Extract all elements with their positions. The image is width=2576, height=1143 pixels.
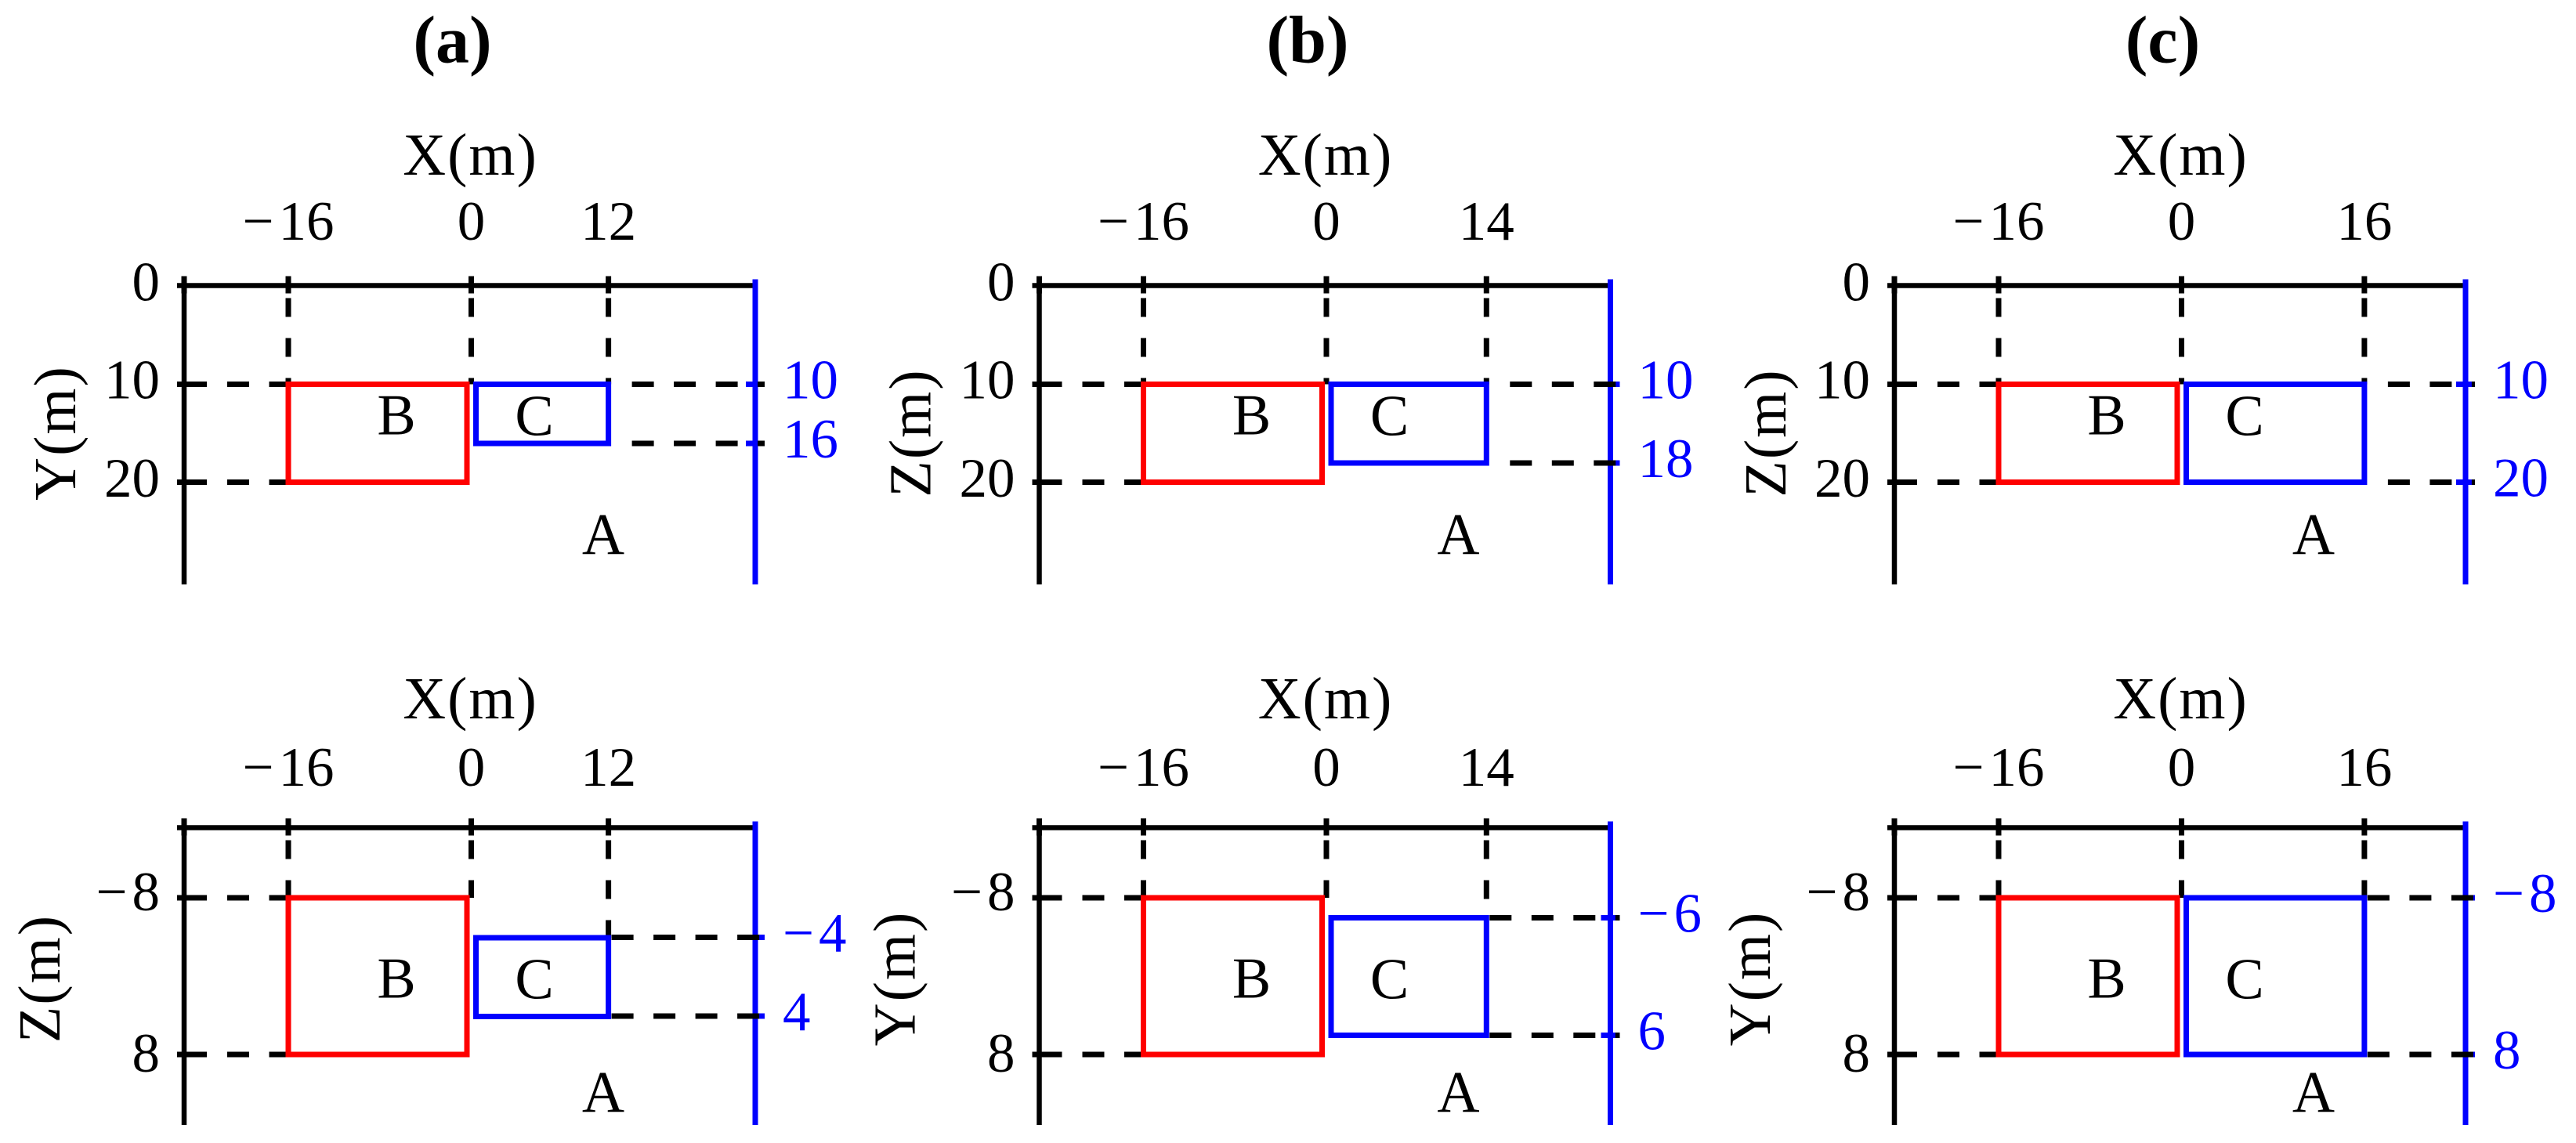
- left tick 20: [1887, 479, 1917, 485]
- top tick: [1324, 277, 1330, 294]
- blue tick 8: [2456, 1052, 2475, 1058]
- top axis row1 (b): [1033, 283, 1611, 288]
- dashed guide x=-16: [1141, 298, 1146, 385]
- svg-text:A: A: [1437, 1060, 1479, 1125]
- blue tick −8: [2456, 895, 2475, 901]
- top tick: [1996, 277, 2002, 294]
- left spine: [182, 819, 187, 1126]
- dashed guide 10 right: [1510, 382, 1619, 387]
- svg-text:Z(m): Z(m): [1733, 368, 1799, 497]
- svg-text:10: 10: [2493, 350, 2549, 411]
- dashed guide 20 right: [2388, 479, 2475, 485]
- svg-text:C: C: [2225, 948, 2263, 1012]
- svg-text:X(m): X(m): [1258, 122, 1394, 188]
- dashed guide 18 right: [1510, 461, 1619, 466]
- svg-text:20: 20: [1814, 448, 1870, 509]
- top tick: [1892, 819, 1898, 836]
- top tick: [1892, 277, 1898, 294]
- svg-text:(a): (a): [413, 2, 491, 78]
- svg-text:8: 8: [987, 1023, 1015, 1084]
- right blue spine: [753, 822, 758, 1126]
- svg-text:−16: −16: [1952, 737, 2044, 798]
- top tick: [2361, 819, 2367, 836]
- svg-text:−16: −16: [1098, 191, 1189, 252]
- dashed guide x=16: [2361, 298, 2367, 385]
- dashed guide y=8 left: [1083, 1052, 1144, 1058]
- svg-text:12: 12: [581, 191, 636, 252]
- top tick: [1141, 277, 1146, 294]
- dashed guide −6 right: [1489, 915, 1619, 921]
- svg-text:0: 0: [2168, 737, 2196, 798]
- svg-text:10: 10: [1814, 350, 1870, 411]
- left tick 8: [1887, 1052, 1917, 1058]
- svg-text:20: 20: [104, 448, 160, 509]
- svg-text:16: 16: [2336, 191, 2392, 252]
- right blue spine: [1608, 280, 1613, 585]
- top tick: [1996, 819, 2002, 836]
- svg-text:A: A: [1437, 502, 1479, 567]
- svg-text:B: B: [1232, 947, 1271, 1011]
- top tick: [286, 819, 291, 836]
- rectangle C blue: [476, 385, 609, 444]
- right blue spine: [2463, 280, 2469, 585]
- rectangle C blue: [1331, 918, 1486, 1036]
- dashed guide y=20 left: [1083, 479, 1144, 485]
- dashed guide x=0: [2179, 841, 2184, 899]
- svg-text:0: 0: [2168, 191, 2196, 252]
- top tick: [606, 819, 611, 836]
- svg-text:B: B: [377, 384, 415, 448]
- left tick −8: [1033, 895, 1062, 901]
- svg-text:0: 0: [132, 252, 161, 313]
- svg-text:6: 6: [1638, 1001, 1666, 1062]
- left tick 10: [1033, 382, 1062, 387]
- left spine: [1892, 819, 1898, 1126]
- rectangle B red: [288, 385, 467, 483]
- top tick: [182, 819, 187, 836]
- svg-text:X(m): X(m): [403, 122, 538, 188]
- svg-text:0: 0: [458, 737, 486, 798]
- top tick: [1324, 819, 1330, 836]
- svg-text:10: 10: [783, 350, 838, 411]
- svg-text:B: B: [2087, 947, 2126, 1011]
- left spine: [1892, 277, 1898, 585]
- top tick: [2179, 277, 2184, 294]
- left tick 8: [177, 1052, 207, 1058]
- svg-text:C: C: [2225, 385, 2263, 449]
- svg-text:16: 16: [783, 409, 838, 470]
- svg-text:(c): (c): [2126, 2, 2200, 78]
- left tick 20: [1033, 479, 1062, 485]
- rectangle B red: [1144, 898, 1322, 1054]
- rectangle B red: [288, 898, 467, 1054]
- svg-text:8: 8: [132, 1023, 161, 1084]
- dashed guide y=10 left: [1083, 382, 1144, 387]
- svg-text:A: A: [2292, 1060, 2335, 1125]
- svg-text:0: 0: [458, 191, 486, 252]
- rectangle B red: [1144, 385, 1322, 483]
- top tick: [1141, 819, 1146, 836]
- top tick: [469, 819, 474, 836]
- left tick 20: [177, 479, 207, 485]
- svg-text:B: B: [1232, 384, 1271, 448]
- dashed guide y=20 left: [1937, 479, 1999, 485]
- dashed guide x=-16: [286, 841, 291, 899]
- dashed guide x=0: [2179, 298, 2184, 385]
- svg-text:Y(m): Y(m): [862, 911, 928, 1047]
- left tick −8: [177, 895, 207, 901]
- dashed guide x=16: [2361, 841, 2367, 899]
- dashed guide y=8 left: [1937, 1052, 1999, 1058]
- dashed guide 4 right: [612, 1014, 765, 1019]
- top tick: [182, 277, 187, 294]
- dashed guide x=-16: [1996, 841, 2002, 899]
- dashed guide x=0: [1324, 298, 1330, 385]
- svg-text:10: 10: [1638, 350, 1694, 411]
- dashed guide x=0: [469, 841, 474, 899]
- svg-text:10: 10: [960, 350, 1015, 411]
- svg-text:−16: −16: [242, 737, 334, 798]
- dashed guide −8 right: [2368, 895, 2475, 901]
- top axis row2 (b): [1033, 825, 1611, 830]
- svg-text:12: 12: [581, 737, 636, 798]
- svg-text:10: 10: [104, 350, 160, 411]
- dashed guide y=10 left: [227, 382, 288, 387]
- left spine: [182, 277, 187, 585]
- svg-text:B: B: [377, 947, 415, 1011]
- svg-text:(b): (b): [1266, 2, 1348, 78]
- rectangle B red: [1999, 898, 2177, 1054]
- svg-text:−16: −16: [242, 191, 334, 252]
- dashed guide −4 right: [612, 935, 765, 940]
- svg-text:X(m): X(m): [2113, 666, 2249, 732]
- dashed guide y=10 left: [1937, 382, 1999, 387]
- top axis row2 (c): [1887, 825, 2466, 830]
- blue tick 4: [746, 1014, 765, 1019]
- svg-text:8: 8: [1843, 1023, 1871, 1084]
- svg-text:4: 4: [783, 982, 811, 1043]
- dashed guide x=14: [1484, 298, 1489, 385]
- top tick: [2361, 277, 2367, 294]
- blue tick 10: [746, 382, 765, 387]
- blue tick 10: [1601, 382, 1620, 387]
- top tick: [469, 277, 474, 294]
- blue tick 10: [2456, 382, 2475, 387]
- svg-text:0: 0: [1312, 191, 1340, 252]
- svg-text:Y(m): Y(m): [23, 365, 89, 501]
- svg-text:Z(m): Z(m): [877, 368, 943, 497]
- dashed guide 6 right: [1489, 1033, 1619, 1038]
- rectangle C blue: [2187, 898, 2364, 1054]
- svg-text:A: A: [582, 502, 624, 567]
- svg-text:0: 0: [1843, 252, 1871, 313]
- svg-text:X(m): X(m): [403, 666, 538, 732]
- dashed guide x=-16: [1996, 298, 2002, 385]
- svg-text:16: 16: [2336, 737, 2392, 798]
- left spine: [1037, 277, 1042, 585]
- svg-text:C: C: [1370, 948, 1409, 1012]
- dashed guide x=12: [606, 841, 611, 939]
- left spine: [1037, 819, 1042, 1126]
- top tick: [1037, 277, 1042, 294]
- top tick: [1484, 819, 1489, 836]
- svg-text:C: C: [1370, 385, 1409, 449]
- dashed guide y=−8 left: [1083, 895, 1144, 901]
- rectangle C blue: [476, 938, 609, 1017]
- svg-text:A: A: [582, 1060, 624, 1125]
- svg-text:14: 14: [1459, 737, 1514, 798]
- dashed guide x=12: [606, 298, 611, 385]
- top tick: [606, 277, 611, 294]
- rectangle C blue: [1331, 385, 1486, 464]
- left tick 10: [1887, 382, 1917, 387]
- top axis row1 (a): [177, 283, 755, 288]
- dashed guide 8 right: [2368, 1052, 2475, 1058]
- top tick: [1484, 277, 1489, 294]
- right blue spine: [753, 280, 758, 585]
- svg-text:−16: −16: [1098, 737, 1189, 798]
- svg-text:X(m): X(m): [1258, 666, 1394, 732]
- blue tick 20: [2456, 479, 2475, 485]
- dashed guide 16 right: [632, 441, 765, 447]
- top tick: [1037, 819, 1042, 836]
- left tick 8: [1033, 1052, 1062, 1058]
- svg-text:0: 0: [987, 252, 1015, 313]
- svg-text:0: 0: [1312, 737, 1340, 798]
- dashed guide x=0: [469, 298, 474, 385]
- blue tick −4: [746, 935, 765, 940]
- svg-text:20: 20: [2493, 448, 2549, 509]
- top axis row1 (c): [1887, 283, 2466, 288]
- dashed guide x=14: [1484, 841, 1489, 918]
- top tick: [2179, 819, 2184, 836]
- rectangle B red: [1999, 385, 2177, 483]
- svg-text:20: 20: [960, 448, 1015, 509]
- svg-text:18: 18: [1638, 429, 1694, 490]
- dashed guide y=−8 left: [227, 895, 288, 901]
- left tick −8: [1887, 895, 1917, 901]
- right blue spine: [1608, 822, 1613, 1126]
- dashed guide y=−8 left: [1937, 895, 1999, 901]
- top axis row2 (a): [177, 825, 755, 830]
- svg-text:C: C: [515, 948, 553, 1012]
- svg-text:C: C: [515, 385, 553, 449]
- svg-text:B: B: [2087, 384, 2126, 448]
- blue tick −6: [1601, 915, 1620, 921]
- dashed guide 10 right: [2388, 382, 2475, 387]
- svg-text:Z(m): Z(m): [7, 914, 73, 1043]
- left tick 10: [177, 382, 207, 387]
- svg-text:−16: −16: [1952, 191, 2044, 252]
- dashed guide 10 right: [632, 382, 765, 387]
- svg-text:14: 14: [1459, 191, 1514, 252]
- dashed guide x=-16: [1141, 841, 1146, 899]
- blue tick 6: [1601, 1033, 1620, 1038]
- dashed guide x=0: [1324, 841, 1330, 899]
- right blue spine: [2463, 822, 2469, 1126]
- blue tick 18: [1601, 461, 1620, 466]
- rectangle C blue: [2187, 385, 2364, 483]
- svg-text:Y(m): Y(m): [1717, 911, 1783, 1047]
- svg-text:A: A: [2292, 502, 2335, 567]
- svg-text:X(m): X(m): [2113, 122, 2249, 188]
- blue tick 16: [746, 441, 765, 447]
- dashed guide y=20 left: [227, 479, 288, 485]
- dashed guide y=8 left: [227, 1052, 288, 1058]
- top tick: [286, 277, 291, 294]
- dashed guide x=-16: [286, 298, 291, 385]
- svg-text:8: 8: [2493, 1020, 2521, 1081]
